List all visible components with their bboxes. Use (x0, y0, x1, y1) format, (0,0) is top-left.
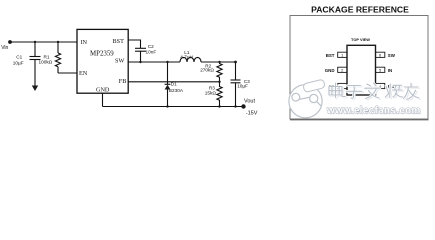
wire Vin top rail (10, 41, 77, 43)
svg-text:15kΩ: 15kΩ (205, 91, 217, 96)
node C3 bottom junction (234, 105, 236, 107)
wire SW line (128, 61, 236, 63)
svg-text:B230A: B230A (169, 88, 184, 93)
pin 4 box (376, 83, 385, 88)
pin 2 box (338, 67, 347, 72)
svg-text:EN: EN (79, 70, 88, 77)
node R1 junction (57, 41, 59, 43)
capacitor C1 (13, 42, 41, 86)
resistor R2 (200, 62, 222, 82)
svg-text:BST: BST (113, 38, 125, 45)
svg-text:4.7µH: 4.7µH (180, 55, 193, 60)
wire BST pin to C2 (128, 40, 141, 48)
resistor R1 (39, 42, 61, 73)
resistor R3 (205, 82, 222, 107)
svg-text:10µF: 10µF (237, 84, 248, 89)
svg-text:MP2359: MP2359 (90, 50, 114, 57)
svg-text:FB: FB (119, 78, 127, 85)
svg-text:5: 5 (379, 68, 382, 73)
svg-text:SW: SW (115, 58, 124, 65)
capacitor C2 (135, 44, 156, 62)
svg-text:Vin: Vin (1, 45, 8, 51)
watermark chinese characters (329, 83, 420, 100)
svg-text:BST: BST (326, 53, 335, 58)
svg-text:PACKAGE REFERENCE: PACKAGE REFERENCE (311, 5, 409, 15)
wire R1 to EN pin (58, 72, 77, 74)
node C3 top junction (234, 61, 237, 64)
svg-text:GND: GND (325, 68, 335, 73)
node C2-SW junction (139, 61, 141, 63)
node D1-SW junction (166, 61, 168, 63)
IC package body (TSOT23-6) (347, 45, 376, 95)
svg-text:2: 2 (341, 68, 344, 73)
svg-text:TOP VIEW: TOP VIEW (351, 37, 370, 42)
package box bottom shadow edge (290, 119, 429, 121)
node D1 bottom junction (166, 105, 168, 107)
node FB junction (218, 81, 220, 83)
svg-text:10nF: 10nF (146, 50, 157, 55)
svg-text:1: 1 (341, 53, 344, 58)
svg-text:SW: SW (388, 53, 396, 58)
wire bottom rail (103, 106, 244, 108)
ground (32, 86, 38, 92)
wire GND pin down (102, 93, 104, 106)
pin 3 box (338, 83, 347, 88)
package reference box (290, 16, 428, 120)
svg-text:270kΩ: 270kΩ (200, 68, 214, 73)
svg-text:C1: C1 (16, 54, 22, 59)
node R3 bottom junction (218, 105, 220, 107)
node Vin terminal (1, 40, 12, 51)
capacitor C3 (231, 62, 251, 107)
svg-text:IN: IN (81, 39, 88, 46)
svg-text:100kΩ: 100kΩ (39, 60, 53, 65)
svg-text:-15V: -15V (246, 110, 258, 116)
watermark url text (326, 106, 422, 118)
wire FB line (128, 81, 220, 83)
inductor L1 (180, 50, 201, 62)
watermark logo circle (289, 79, 325, 118)
op-amp U1 MP2359 IC body (77, 29, 128, 93)
pin 1 box (338, 52, 347, 57)
svg-text:www.elecfans.com: www.elecfans.com (326, 106, 421, 117)
svg-text:Vout: Vout (244, 98, 255, 104)
node C1 junction (34, 41, 36, 43)
pin 5 box (376, 67, 385, 72)
node Vout terminal (241, 98, 257, 116)
svg-text:GND: GND (96, 87, 110, 94)
svg-text:10µF: 10µF (13, 60, 24, 65)
svg-text:6: 6 (379, 53, 382, 58)
pin 6 box (376, 52, 385, 57)
node R2 top junction (218, 61, 220, 63)
svg-text:C2: C2 (148, 44, 154, 49)
svg-text:IN: IN (388, 68, 392, 73)
diode D1 B230A (165, 62, 184, 107)
